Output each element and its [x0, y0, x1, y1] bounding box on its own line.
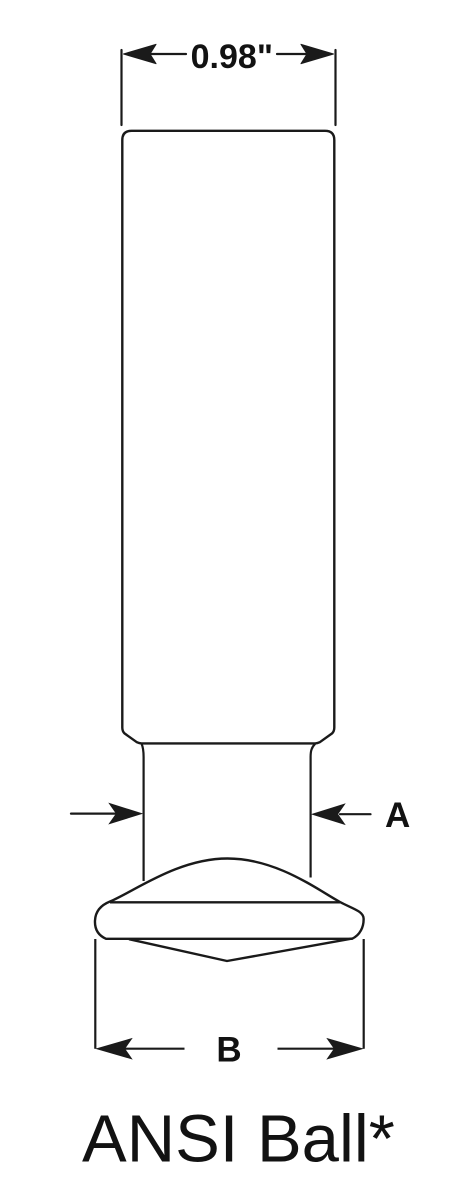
dimension 0.98 extension line right	[334, 50, 336, 125]
svg-text:ANSI Ball*: ANSI Ball*	[82, 1102, 395, 1177]
dimension A leader line right	[340, 813, 371, 815]
svg-text:B: B	[216, 1031, 241, 1070]
dimension A arrow left	[110, 804, 142, 824]
ball equator chord line	[110, 901, 340, 903]
svg-text:0.98": 0.98"	[191, 38, 273, 76]
dimension B extension line right	[363, 939, 365, 1049]
dimension B leader line left	[125, 1048, 185, 1050]
dimension 0.98 extension line left	[120, 50, 122, 125]
dimension A leader line left	[71, 812, 115, 814]
ball bottom cone V lines	[129, 939, 352, 961]
svg-text:A: A	[385, 796, 410, 835]
dimension B arrow right	[328, 1039, 363, 1059]
pin body outline	[122, 131, 334, 744]
dimension 0.98 arrow left	[124, 44, 157, 63]
dimension 0.98 arrow right	[301, 44, 334, 63]
ball dome and band outline	[95, 859, 364, 939]
neck left edge	[142, 744, 144, 881]
dimension B extension line left	[94, 939, 96, 1049]
dimension B leader line right	[278, 1048, 335, 1050]
dimension A arrow right	[313, 804, 345, 824]
dimension 0.98 leader line left	[140, 53, 186, 55]
neck right edge	[311, 744, 316, 878]
dimension 0.98 leader line right	[277, 53, 318, 55]
dimension B arrow left	[97, 1039, 132, 1059]
